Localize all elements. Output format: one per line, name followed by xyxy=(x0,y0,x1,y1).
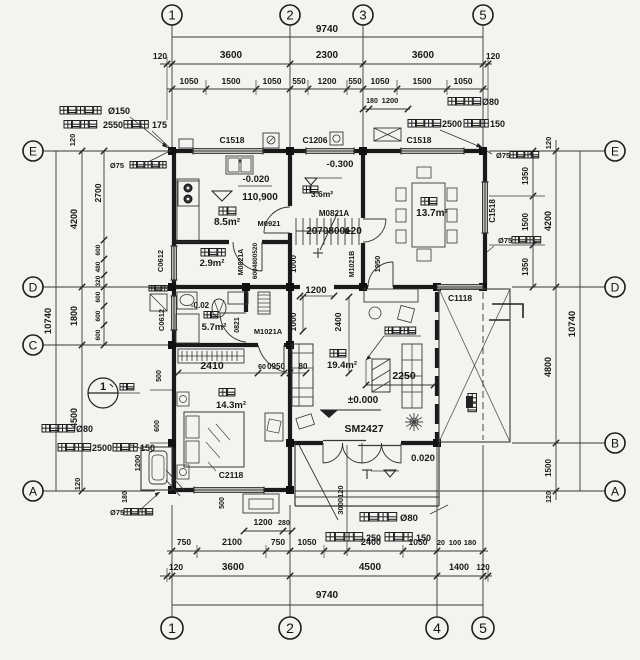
window C0612 bath west xyxy=(172,296,177,330)
wall C row (bath/bedroom) xyxy=(172,343,258,347)
svg-text:1: 1 xyxy=(168,620,176,636)
wall axis2 E-D xyxy=(288,151,292,206)
svg-text:Ø80: Ø80 xyxy=(76,424,93,434)
svg-text:600: 600 xyxy=(95,291,102,302)
wall bath right axis xyxy=(244,289,248,312)
wall B row living south xyxy=(290,441,323,445)
plant xyxy=(405,413,423,431)
svg-text:1050: 1050 xyxy=(454,76,473,86)
svg-text:1: 1 xyxy=(100,381,106,393)
svg-text:3.6m²: 3.6m² xyxy=(311,189,333,199)
svg-text:20: 20 xyxy=(437,540,445,547)
svg-text:4: 4 xyxy=(433,620,441,636)
wall A row bedroom south xyxy=(168,488,194,492)
svg-text:E: E xyxy=(29,144,37,158)
window C0612 storage west xyxy=(172,246,177,280)
svg-text:-0.020: -0.020 xyxy=(243,174,270,185)
axis circle 5 top xyxy=(473,5,493,25)
dimension column right 120/4200/4800/1500/120 xyxy=(555,140,557,500)
grid line axis 4 vertical xyxy=(436,445,438,617)
elevation +-0.000 living xyxy=(320,409,381,411)
label desk position xyxy=(385,327,392,334)
axis circle C left xyxy=(23,335,43,355)
svg-text:1050: 1050 xyxy=(298,537,317,547)
terrace outline xyxy=(294,443,296,506)
sliding door SM2427 symbol xyxy=(323,440,366,442)
label hall 3.6m2 xyxy=(303,186,310,193)
small step below bedroom xyxy=(243,494,279,513)
detail circle 1 rainwater xyxy=(88,378,118,408)
svg-text:5: 5 xyxy=(479,8,486,23)
shower compartment xyxy=(176,314,199,343)
svg-text:M0921: M0921 xyxy=(258,219,281,228)
axis circle 4 bottom xyxy=(426,617,448,639)
svg-text:D: D xyxy=(611,280,620,294)
svg-text:C0612: C0612 xyxy=(157,309,166,331)
svg-text:280: 280 xyxy=(278,520,290,527)
svg-text:1350: 1350 xyxy=(521,167,530,185)
svg-text:C1518: C1518 xyxy=(219,135,244,145)
outer wall axis5 (right E-D) xyxy=(483,149,487,182)
svg-text:9740: 9740 xyxy=(316,590,339,601)
svg-text:100: 100 xyxy=(449,538,462,547)
grid line axis 2 vertical xyxy=(289,25,291,148)
svg-text:120: 120 xyxy=(68,134,77,147)
label storage 2.9m2 xyxy=(201,249,209,257)
axis circle E left xyxy=(23,141,43,161)
sideboard along balcony wall xyxy=(402,344,422,408)
extension lines bottom dims xyxy=(196,545,198,558)
svg-text:±0.000: ±0.000 xyxy=(348,395,379,406)
dining table xyxy=(412,183,445,247)
svg-text:600: 600 xyxy=(95,329,102,340)
axis circle B right xyxy=(605,433,625,453)
living dim 2250 xyxy=(366,384,434,386)
grid line axis A horizontal xyxy=(43,490,155,492)
svg-text:2400: 2400 xyxy=(333,312,343,331)
svg-text:0.020: 0.020 xyxy=(411,453,435,464)
small box with circle near C1206 xyxy=(330,132,343,145)
window C1518 kitchen xyxy=(193,149,263,154)
bedroom dims 2410 / 600 950 / 80 xyxy=(178,372,306,374)
stool xyxy=(296,414,315,429)
svg-text:500: 500 xyxy=(219,497,226,509)
svg-text:E: E xyxy=(611,144,619,158)
flue box with X on top wall xyxy=(374,128,401,141)
note AC hole top-right xyxy=(448,98,456,106)
svg-text:Ø75: Ø75 xyxy=(498,236,512,245)
svg-text:C1118: C1118 xyxy=(448,293,472,303)
kitchen sink xyxy=(226,156,253,174)
dimension row top 120/3600/2300/3600/120 xyxy=(160,63,492,65)
svg-text:C: C xyxy=(29,338,38,352)
window C1518 dining xyxy=(401,149,464,154)
window C1118 on D wall xyxy=(437,285,483,290)
window C1518 dining east xyxy=(483,182,488,233)
balcony label xyxy=(468,394,477,403)
svg-text:C0612: C0612 xyxy=(156,250,165,272)
svg-text:2: 2 xyxy=(286,8,293,23)
wardrobe xyxy=(178,349,244,363)
kitchen counter xyxy=(177,179,199,242)
wall kitchen/storage divider xyxy=(172,240,229,244)
svg-text:0821: 0821 xyxy=(234,317,241,333)
bathroom washbasin xyxy=(177,292,197,309)
svg-text:1800: 1800 xyxy=(69,306,79,326)
svg-text:5.7m²: 5.7m² xyxy=(202,322,227,333)
svg-text:120: 120 xyxy=(544,137,553,150)
stair treads xyxy=(295,218,297,245)
note drain pipe top-left xyxy=(130,162,137,169)
sliding partition living/balcony axis4 xyxy=(435,292,439,440)
svg-text:4500: 4500 xyxy=(359,562,382,573)
svg-text:4200: 4200 xyxy=(543,211,553,231)
svg-text:M1021B: M1021B xyxy=(349,251,356,277)
svg-text:1500: 1500 xyxy=(521,213,530,231)
dimension column left 10740 xyxy=(55,151,57,491)
svg-text:1400: 1400 xyxy=(449,562,469,572)
svg-text:1: 1 xyxy=(168,8,175,23)
dimension column left 4200/1800/4500 xyxy=(81,151,83,491)
svg-text:600: 600 xyxy=(154,420,161,432)
nightstand top xyxy=(177,392,189,406)
dimension row bottom 9740 xyxy=(172,604,483,606)
label bath 5.7m2 xyxy=(204,312,211,319)
svg-text:C1206: C1206 xyxy=(302,135,327,145)
small box on wall near axis1/E xyxy=(179,139,193,148)
svg-text:1500: 1500 xyxy=(413,76,432,86)
svg-text:750: 750 xyxy=(177,537,191,547)
annex outline bottom-left xyxy=(141,447,172,490)
svg-text:1200: 1200 xyxy=(254,517,273,527)
svg-text:600: 600 xyxy=(95,310,102,321)
svg-text:9740: 9740 xyxy=(316,24,339,35)
svg-text:2700: 2700 xyxy=(93,183,103,202)
dimension column right 1350/1500/1350 xyxy=(532,151,534,287)
svg-text:600: 600 xyxy=(95,244,102,255)
svg-text:14.3m²: 14.3m² xyxy=(216,400,246,411)
svg-text:2.9m²: 2.9m² xyxy=(200,258,225,269)
svg-text:500: 500 xyxy=(156,370,163,382)
flue box at kitchen wall xyxy=(263,133,279,148)
label dining 13.7m2 xyxy=(421,198,429,206)
svg-text:175: 175 xyxy=(152,120,167,130)
svg-text:550: 550 xyxy=(348,77,362,86)
svg-text:1000: 1000 xyxy=(289,255,298,273)
svg-text:150: 150 xyxy=(416,533,431,543)
svg-text:180: 180 xyxy=(122,491,129,503)
svg-text:2100: 2100 xyxy=(222,537,242,547)
svg-text:3600: 3600 xyxy=(222,562,245,573)
svg-text:Ø150: Ø150 xyxy=(108,106,130,116)
svg-text:SM2427: SM2427 xyxy=(344,423,383,435)
svg-text:-0.02: -0.02 xyxy=(191,301,210,310)
svg-text:1050: 1050 xyxy=(263,76,282,86)
axis circle 1 top xyxy=(162,5,182,25)
svg-text:A: A xyxy=(29,484,37,498)
svg-text:480: 480 xyxy=(95,261,102,272)
svg-text:B: B xyxy=(611,436,619,450)
svg-text:19.4m²: 19.4m² xyxy=(327,360,357,371)
label bedroom 14.3m2 xyxy=(219,389,227,397)
grid line axis B horizontal xyxy=(512,442,605,444)
bed xyxy=(184,412,244,467)
svg-text:2410: 2410 xyxy=(200,360,224,372)
svg-text:0950: 0950 xyxy=(267,362,285,371)
svg-text:150: 150 xyxy=(140,443,155,453)
svg-text:320: 320 xyxy=(95,275,102,286)
balcony east with cross bracing xyxy=(439,289,510,442)
dimension row bottom 750/2100/750/1050/2400/1050 xyxy=(167,550,488,552)
label kitchen 8.5m2 xyxy=(219,207,227,215)
svg-text:2: 2 xyxy=(286,620,294,636)
grid line axis 5 vertical xyxy=(482,25,484,148)
svg-text:C1518: C1518 xyxy=(488,199,497,223)
dimension row top 1050/1500/1050/550/1200/550/1050/1500/1050 xyxy=(167,88,488,90)
sofa xyxy=(292,344,313,406)
axis circle 2 bottom xyxy=(279,617,301,639)
svg-text:150: 150 xyxy=(490,119,505,129)
axis circle 2 top xyxy=(280,5,300,25)
svg-text:1200: 1200 xyxy=(382,96,399,105)
door M0921 kitchen xyxy=(264,232,290,234)
svg-text:6004800520: 6004800520 xyxy=(252,243,259,280)
door M0821A stair to dining xyxy=(363,218,386,220)
window C2118 bedroom south xyxy=(194,488,264,493)
svg-text:Ø75: Ø75 xyxy=(110,161,124,170)
columns at grid intersections xyxy=(168,147,176,155)
outer wall E row (top) xyxy=(168,149,193,153)
axis circle 3 top xyxy=(353,5,373,25)
grid line axis D horizontal xyxy=(43,286,170,288)
outer wall axis1 (left) xyxy=(172,149,176,246)
svg-text:2550: 2550 xyxy=(103,120,123,130)
svg-text:C1518: C1518 xyxy=(406,135,431,145)
wall D row xyxy=(168,285,300,289)
svg-text:4800: 4800 xyxy=(543,357,553,377)
svg-text:2500: 2500 xyxy=(92,443,112,453)
terrace down mark xyxy=(362,469,372,471)
svg-text:5: 5 xyxy=(479,620,487,636)
living desk along D wall xyxy=(364,289,418,302)
terrace elevation triangle xyxy=(384,470,396,477)
door M0821A storage xyxy=(261,242,263,271)
svg-text:-0.300: -0.300 xyxy=(327,159,354,170)
note AC hole bottom-left xyxy=(42,425,50,433)
svg-text:750: 750 xyxy=(271,537,285,547)
svg-text:Ø75: Ø75 xyxy=(496,151,510,160)
hall shoe cabinet xyxy=(258,292,270,314)
dimension row top 9740 xyxy=(172,36,483,38)
svg-text:3600: 3600 xyxy=(220,50,243,61)
svg-text:250: 250 xyxy=(366,533,381,543)
svg-text:2070800120: 2070800120 xyxy=(306,226,362,237)
dining chairs xyxy=(396,188,406,201)
svg-text:3600: 3600 xyxy=(412,50,435,61)
dimension column left 2700 + small stack xyxy=(103,151,105,345)
axis circle E right xyxy=(605,141,625,161)
door M1021B dining/terrace in D wall xyxy=(392,262,394,287)
toilet xyxy=(228,292,248,304)
corner bracket mark xyxy=(492,304,523,318)
svg-text:1050: 1050 xyxy=(180,76,199,86)
svg-text:1500: 1500 xyxy=(222,76,241,86)
dimension row bottom 1200 280 xyxy=(244,530,292,532)
svg-text:C2118: C2118 xyxy=(219,470,244,480)
svg-text:2250: 2250 xyxy=(392,370,416,382)
svg-text:D: D xyxy=(29,280,38,294)
svg-text:Ø80: Ø80 xyxy=(482,97,499,107)
svg-text:Ø80: Ø80 xyxy=(400,513,418,524)
door M1021A bedroom xyxy=(283,345,285,372)
svg-text:3000120: 3000120 xyxy=(336,485,345,514)
svg-text:2300: 2300 xyxy=(316,50,339,61)
svg-text:120: 120 xyxy=(73,478,82,491)
axis circle 1 bottom xyxy=(161,617,183,639)
kitchen stove xyxy=(178,181,199,206)
svg-text:120: 120 xyxy=(169,562,183,572)
svg-text:80: 80 xyxy=(299,362,308,371)
annex tub fixture xyxy=(149,451,167,484)
dimension column right 10740 xyxy=(579,151,581,491)
svg-text:M0821A: M0821A xyxy=(238,249,245,275)
svg-text:120: 120 xyxy=(153,51,167,61)
grid line axis E horizontal xyxy=(43,150,170,152)
note wall AC hole top-left xyxy=(60,107,68,115)
dimension row bottom 120/3600/4500/1400/120 xyxy=(160,575,492,577)
axis circle A left xyxy=(23,481,43,501)
svg-text:M1021A: M1021A xyxy=(254,327,283,336)
sub dimension 180 1200 over dining window xyxy=(363,108,410,110)
window C1206 stair hall xyxy=(306,149,354,154)
svg-text:10740: 10740 xyxy=(567,311,578,337)
svg-text:180: 180 xyxy=(464,538,477,547)
svg-text:1500: 1500 xyxy=(544,459,553,477)
svg-text:1000: 1000 xyxy=(288,312,298,331)
svg-text:1950: 1950 xyxy=(373,256,382,273)
flush tank box xyxy=(150,294,167,311)
svg-text:Ø75: Ø75 xyxy=(110,508,124,517)
note AC hole bottom-mid xyxy=(360,513,369,522)
svg-text:10740: 10740 xyxy=(43,308,54,334)
svg-text:2500: 2500 xyxy=(442,119,462,129)
porch double doors from living room xyxy=(322,443,324,463)
svg-text:550: 550 xyxy=(292,77,306,86)
svg-text:60: 60 xyxy=(258,364,266,371)
svg-text:13.7m²: 13.7m² xyxy=(416,208,448,219)
axis circle A right xyxy=(605,481,625,501)
label living 19.4m2 xyxy=(330,350,338,358)
svg-text:A: A xyxy=(611,484,619,498)
axis circle D left xyxy=(23,277,43,297)
extension lines top dims xyxy=(205,80,207,95)
axis circle 5 bottom xyxy=(472,617,494,639)
svg-text:1050: 1050 xyxy=(371,76,390,86)
stair break line xyxy=(320,212,338,250)
grid line axis 3 vertical xyxy=(362,25,364,148)
bedroom desk xyxy=(265,413,283,441)
svg-text:1200: 1200 xyxy=(318,76,337,86)
svg-text:110,900: 110,900 xyxy=(242,192,278,203)
svg-text:1200: 1200 xyxy=(305,285,326,296)
grid line axis 1 vertical xyxy=(171,25,173,148)
axis circle D right xyxy=(605,277,625,297)
terrace leader diagonal xyxy=(299,445,338,520)
grid line axis C horizontal xyxy=(43,344,172,346)
svg-text:120: 120 xyxy=(546,491,553,503)
hatched desk box mid room xyxy=(372,359,390,392)
svg-text:8.5m²: 8.5m² xyxy=(214,217,241,228)
svg-text:180: 180 xyxy=(366,98,378,105)
nightstand bottom xyxy=(177,465,189,479)
wall axis2 D-A xyxy=(288,289,292,443)
svg-text:3: 3 xyxy=(359,8,366,23)
svg-text:4200: 4200 xyxy=(69,209,79,229)
door M0821 bathroom xyxy=(220,312,246,314)
wall axis3 E-D xyxy=(361,151,365,218)
svg-text:M0821A: M0821A xyxy=(319,209,349,218)
svg-text:1350: 1350 xyxy=(521,258,530,276)
